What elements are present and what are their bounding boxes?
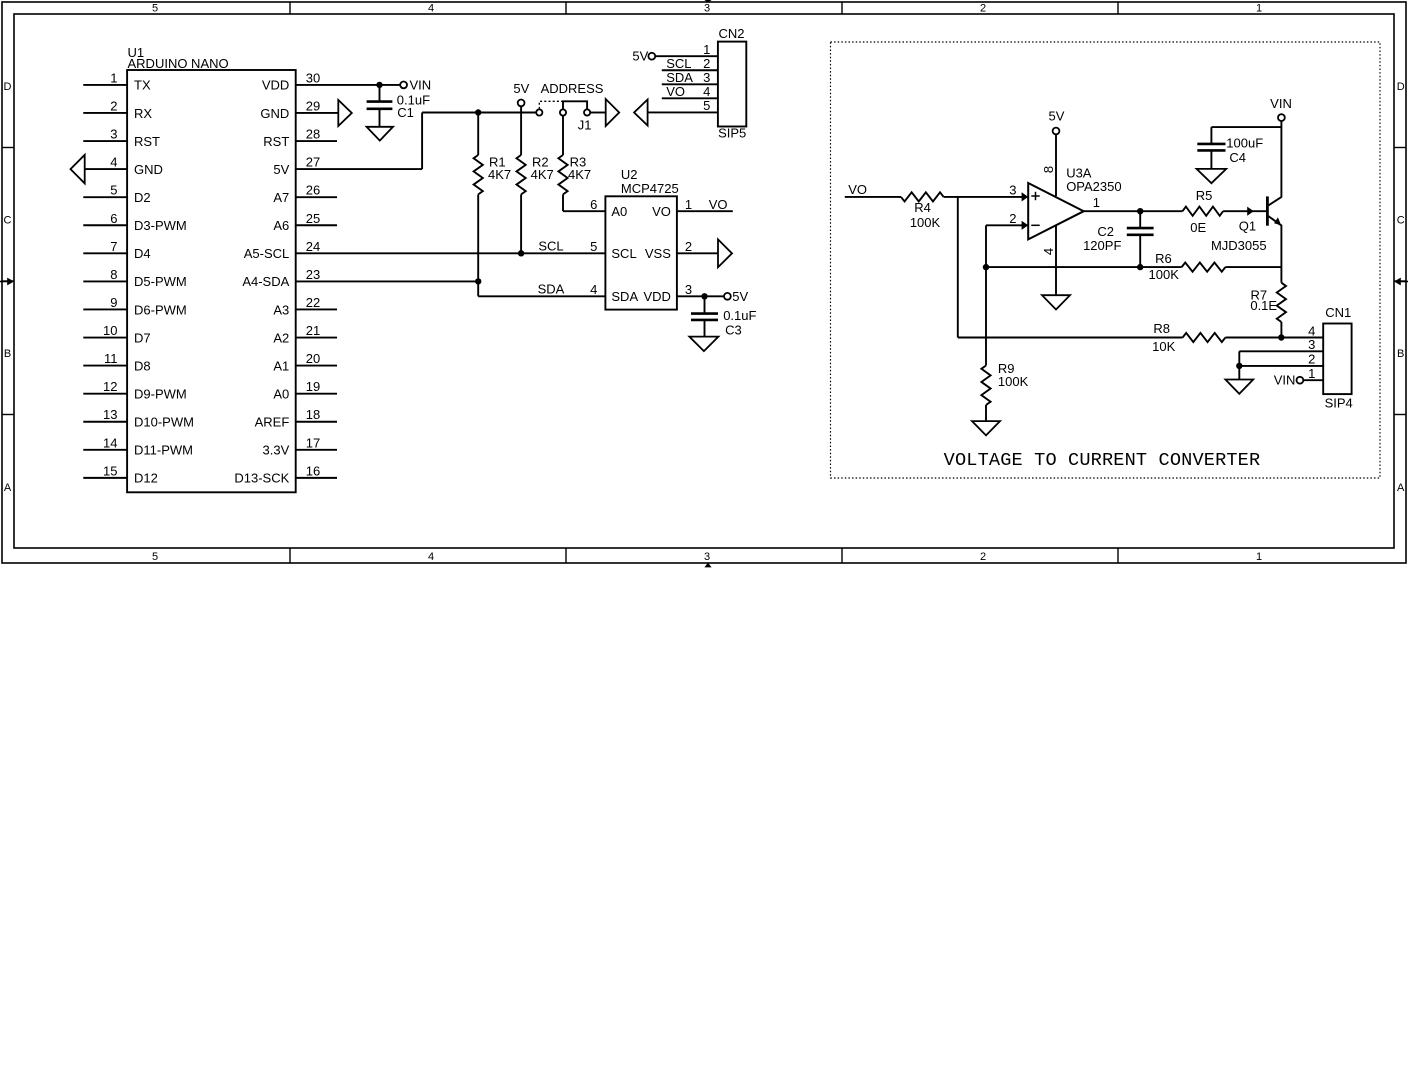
svg-text:D10-PWM: D10-PWM [134,415,194,430]
capacitor C1 0.1uF [367,85,431,127]
resistor R7 0.1E [1250,283,1286,322]
wire J1 pad3 to port arrow [590,112,606,114]
svg-text:30: 30 [306,70,320,85]
svg-text:100K: 100K [910,215,941,230]
U1 pin 16 D13-SCK [234,463,337,485]
svg-text:12: 12 [103,379,117,394]
terminal 5V (above R2) [513,81,529,106]
svg-text:VO: VO [709,197,728,212]
port arrow ADDRESS out [606,99,620,126]
U1 pin 2 RX [83,98,152,120]
jumper J1 pad 1 [536,109,542,115]
op-amp U3A OPA2350 [1028,166,1121,240]
svg-text:R8: R8 [1153,321,1170,336]
ground below U3A pin 4 [1042,295,1070,309]
ground below C3 [689,337,718,352]
svg-text:7: 7 [110,239,117,254]
connector CN1 SIP4 body [1323,305,1353,410]
junction SCL / R2 [518,250,524,256]
svg-text:3: 3 [110,127,117,142]
svg-text:5: 5 [590,239,597,254]
J1 solid bracket pads 2-3 [563,101,587,109]
U3A pin 1 output wire [1084,195,1183,211]
U2 pin 6 A0 [590,197,627,219]
svg-text:ARDUINO NANO: ARDUINO NANO [128,56,229,71]
sheet frame outer border [2,2,1406,563]
U1 pin 12 D9-PWM [83,379,186,401]
capacitor C4 100uF [1197,127,1263,169]
svg-text:VO: VO [848,182,867,197]
junction output / C2 [1137,208,1143,214]
svg-text:1: 1 [1308,366,1315,381]
svg-text:19: 19 [306,379,320,394]
svg-text:C1: C1 [397,105,414,120]
frame centering arrow left [0,278,14,286]
svg-text:13: 13 [103,407,117,422]
CN1 pin 3 [1239,337,1323,366]
U2 pin 2 VSS [645,239,718,261]
svg-text:10K: 10K [1152,339,1175,354]
port arrow VSS (U2 pin2) [718,239,732,267]
svg-text:10: 10 [103,323,117,338]
svg-text:1: 1 [703,42,710,57]
U3A pin 3 input arrow [1009,182,1028,201]
svg-text:MCP4725: MCP4725 [621,181,679,196]
svg-text:D4: D4 [134,246,151,261]
svg-text:C: C [4,214,12,226]
frame row ticks right [1394,148,1406,415]
svg-text:4: 4 [1308,323,1315,338]
svg-text:100uF: 100uF [1226,136,1263,151]
U1 pin 10 D7 [83,323,150,345]
svg-text:A: A [1397,482,1405,494]
resistor R2 4K7 [517,106,554,253]
svg-text:2: 2 [110,98,117,113]
svg-text:D13-SCK: D13-SCK [234,471,289,486]
svg-text:100K: 100K [1149,267,1180,282]
jumper J1 pad 3 [584,109,590,115]
U2 pin 5 SCL [590,239,637,261]
svg-text:2: 2 [1009,211,1016,226]
frame column ticks bottom [290,548,1118,563]
U3A pin 2 input arrow [1009,211,1028,230]
wire SDA net U1 pin23 to U2 pin4 [296,281,606,296]
resistor R9 100K [981,267,1028,421]
U1 pin 6 D3-PWM [83,211,186,233]
svg-text:C3: C3 [725,323,742,338]
terminal VIN (top right) [1270,96,1292,121]
wire feedback line to R6 [986,266,1182,268]
svg-text:28: 28 [306,127,320,142]
jumper J1 pad 2 [560,109,566,115]
U1 pin 4 GND [85,155,163,177]
svg-text:SDA: SDA [666,70,693,85]
wire VIN branch to C4 [1211,126,1281,128]
ground below C1 [367,127,393,141]
svg-text:SDA: SDA [611,289,638,304]
svg-text:A7: A7 [273,190,289,205]
svg-text:VOLTAGE TO CURRENT CONVERTER: VOLTAGE TO CURRENT CONVERTER [944,450,1261,471]
svg-text:VO: VO [652,204,671,219]
resistor R6 100K [1149,251,1226,282]
svg-text:D9-PWM: D9-PWM [134,386,187,401]
svg-text:4: 4 [428,551,434,563]
svg-text:22: 22 [306,295,320,310]
wire R7 to junction [1280,322,1282,338]
U1 pin 11 D8 [83,351,150,373]
U1 pin 21 A2 [273,323,337,345]
U1 pin 13 D10-PWM [83,407,194,429]
dotted box VOLTAGE TO CURRENT CONVERTER [831,42,1381,478]
svg-text:23: 23 [306,267,320,282]
IC U1 ARDUINO NANO body [127,45,296,493]
svg-text:A2: A2 [273,330,289,345]
svg-text:D: D [4,81,12,93]
svg-text:4: 4 [1041,248,1056,255]
U1 pin 7 D4 [83,239,150,261]
svg-text:16: 16 [306,463,320,478]
svg-text:2: 2 [980,3,986,15]
svg-text:26: 26 [306,183,320,198]
svg-text:2: 2 [685,239,692,254]
capacitor C2 120PF [1083,211,1154,267]
wire R3 to U2 pin6 [563,210,605,212]
terminal 5V (U2 VDD) [724,289,749,304]
CN2 pin 4 VO [662,84,718,99]
U1 pin 24 A5-SCL [244,239,321,261]
junction 5V rail / R1 [475,109,481,115]
svg-text:D12: D12 [134,471,158,486]
svg-text:0.1E: 0.1E [1250,298,1277,313]
sheet frame inner border [14,14,1394,548]
resistor R8 10K [1152,321,1225,354]
svg-text:5V: 5V [1049,109,1065,124]
svg-text:4K7: 4K7 [488,167,511,182]
svg-text:SCL: SCL [538,239,563,254]
svg-text:0.1uF: 0.1uF [723,308,756,323]
svg-text:GND: GND [260,106,289,121]
junction feedback / C2 [1137,264,1143,270]
wire R6 to emitter vertical [1225,266,1281,268]
svg-text:2: 2 [1308,352,1315,367]
svg-text:OPA2350: OPA2350 [1066,179,1121,194]
frame column labels bottom [152,551,1262,563]
U1 pin 8 D5-PWM [83,267,186,289]
transistor Q1 MJD3055 [1211,196,1282,253]
frame centering arrow right [1394,278,1408,286]
svg-text:1: 1 [1256,3,1262,15]
wire to ground CN1 [1238,366,1240,380]
CN2 pin 2 SCL [662,56,718,71]
U3A pin 4 supply [1041,225,1056,295]
Q1 base input arrow [1247,207,1254,216]
U1 pin 22 A3 [273,295,337,317]
CN1 pin 2 [1239,352,1323,367]
U1 pin 1 TX [83,70,151,92]
U1 pin 28 RST [263,127,337,149]
svg-text:U2: U2 [621,167,638,182]
svg-text:CN2: CN2 [718,26,744,41]
svg-text:CN1: CN1 [1325,305,1351,320]
resistor R1 4K7 [474,113,512,282]
svg-text:3.3V: 3.3V [263,443,290,458]
IC U2 MCP4725 body [605,167,678,310]
net stub VO input [845,182,901,197]
svg-text:15: 15 [103,463,117,478]
terminal 5V (CN2 pin1) [632,48,655,63]
svg-text:D3-PWM: D3-PWM [134,218,187,233]
svg-text:24: 24 [306,239,320,254]
U2 pin 1 VO [652,197,733,219]
U1 pin 26 A7 [273,183,337,205]
svg-text:A3: A3 [273,302,289,317]
U1 pin 20 A1 [273,351,337,373]
U1 pin 14 D11-PWM [83,435,193,457]
U1 pin 15 D12 [83,463,158,485]
capacitor C3 0.1uF [691,296,757,337]
svg-text:5: 5 [152,3,158,15]
svg-text:5: 5 [152,551,158,563]
svg-text:A: A [4,482,12,494]
svg-text:VO: VO [666,84,685,99]
svg-text:25: 25 [306,211,320,226]
port arrow GND (U1 pin 4) [71,155,85,184]
svg-text:VDD: VDD [262,78,289,93]
wire SCL net U1 pin24 to U2 pin5 [296,239,606,254]
svg-text:A4-SDA: A4-SDA [242,274,289,289]
resistor R3 4K7 [558,116,591,212]
wire R4 to op-amp + input [944,196,1029,198]
svg-text:C2: C2 [1097,224,1114,239]
svg-text:TX: TX [134,78,151,93]
svg-text:17: 17 [306,435,320,450]
svg-text:11: 11 [104,351,118,366]
svg-text:3: 3 [704,3,710,15]
U1 pin 27 5V [273,155,320,177]
svg-text:D8: D8 [134,358,151,373]
junction feedback node [983,264,989,270]
svg-text:VDD: VDD [643,289,670,304]
wire R5 to Q1 base [1223,210,1266,212]
svg-text:4: 4 [590,282,597,297]
svg-text:2: 2 [980,551,986,563]
svg-text:VIN: VIN [1274,372,1296,387]
wire U1 pin27 5V rail [296,113,537,170]
svg-text:SCL: SCL [666,56,691,71]
CN2 pin 3 SDA [662,70,718,85]
svg-text:21: 21 [306,323,320,338]
svg-text:VIN: VIN [1270,96,1292,111]
svg-text:5V: 5V [513,81,529,96]
frame row labels left [4,81,12,494]
terminal 5V (U3A pin 8) [1049,109,1065,135]
frame column labels top [152,3,1262,15]
wire - input [986,225,1028,267]
svg-text:SCL: SCL [611,246,636,261]
svg-text:9: 9 [110,295,117,310]
svg-text:GND: GND [134,162,163,177]
svg-text:100K: 100K [998,374,1029,389]
svg-text:3: 3 [704,551,710,563]
svg-text:29: 29 [306,98,320,113]
resistor R5 0E [1183,188,1224,235]
svg-text:D2: D2 [134,190,151,205]
svg-text:R4: R4 [914,200,931,215]
U1 pin 19 A0 [273,379,337,401]
svg-text:RST: RST [263,134,289,149]
svg-text:SIP5: SIP5 [718,126,746,141]
junction CN1 gnd [1236,363,1242,369]
U1 pin 3 RST [83,127,160,149]
ground below CN1 pins 2/3 [1225,380,1253,394]
U1 pin 17 3.3V [263,435,337,457]
frame column ticks top [290,2,1118,14]
junction SDA / R1 [475,278,481,284]
svg-text:A1: A1 [273,358,289,373]
wire Q1 emitter to R7 [1280,226,1282,283]
U3A pin 8 supply [1041,135,1056,197]
CN1 pin 1 VIN [1303,366,1323,381]
svg-text:A0: A0 [273,386,289,401]
svg-text:R5: R5 [1196,188,1213,203]
svg-text:MJD3055: MJD3055 [1211,238,1267,253]
U1 pin 18 AREF [255,407,337,429]
svg-text:RST: RST [134,134,160,149]
svg-text:AREF: AREF [255,415,290,430]
CN2 pin 1 (5V) [655,42,718,57]
svg-text:5: 5 [110,183,117,198]
svg-text:3: 3 [1308,337,1315,352]
ground below C4 [1197,169,1227,183]
svg-text:6: 6 [110,211,117,226]
svg-text:VSS: VSS [645,246,671,261]
svg-text:VIN: VIN [410,77,432,92]
svg-text:6: 6 [590,197,597,212]
svg-text:4K7: 4K7 [531,167,554,182]
svg-text:1: 1 [1093,195,1100,210]
svg-text:20: 20 [306,351,320,366]
U1 pin 29 GND [260,98,338,120]
svg-text:SIP4: SIP4 [1325,396,1353,411]
junction emitter/R8/CN1 [1278,334,1284,340]
frame centering arrow top [704,0,711,3]
svg-text:5: 5 [703,98,710,113]
wire Q1 collector to VIN [1280,121,1282,197]
U2 pin 4 SDA [590,282,638,304]
svg-text:4: 4 [428,3,434,15]
U2 pin 3 VDD [643,282,724,304]
svg-text:120PF: 120PF [1083,238,1121,253]
svg-text:3: 3 [685,282,692,297]
svg-text:4: 4 [703,84,710,99]
junction at VDD/C1 [376,82,382,88]
svg-text:0E: 0E [1190,220,1206,235]
svg-text:RX: RX [134,106,152,121]
svg-text:B: B [1397,348,1404,360]
svg-text:4: 4 [110,155,117,170]
svg-text:SDA: SDA [538,281,565,296]
wire + node riser to R8 [958,197,1183,338]
svg-text:D5-PWM: D5-PWM [134,274,187,289]
resistor R4 100K [901,192,944,230]
svg-text:27: 27 [306,155,320,170]
terminal VIN (CN1 pin1) [1274,372,1304,387]
svg-text:B: B [4,348,11,360]
U1 pin 30 VDD [262,70,320,92]
svg-text:ADDRESS: ADDRESS [541,81,604,96]
svg-text:5V: 5V [732,289,748,304]
svg-text:A0: A0 [611,204,627,219]
junction VDD / C3 [701,293,707,299]
svg-text:D6-PWM: D6-PWM [134,302,187,317]
svg-text:1: 1 [110,70,117,85]
svg-text:R6: R6 [1155,251,1172,266]
ground below R9 [972,421,1000,435]
wire R8 to emitter junction [1225,337,1281,339]
svg-text:C: C [1397,214,1405,226]
svg-text:1: 1 [1256,551,1262,563]
frame row ticks left [2,148,14,415]
svg-text:3: 3 [703,70,710,85]
svg-text:5V: 5V [273,162,289,177]
frame row labels right [1397,81,1405,494]
U1 pin 25 A6 [273,211,337,233]
terminal VIN (top left) [400,77,431,92]
frame centering arrow bottom [704,563,711,568]
svg-text:5V: 5V [632,48,648,63]
svg-text:D7: D7 [134,330,151,345]
svg-text:3: 3 [1009,182,1016,197]
svg-text:Q1: Q1 [1239,219,1256,234]
svg-text:18: 18 [306,407,320,422]
svg-text:8: 8 [1041,166,1056,173]
svg-text:D: D [1397,81,1405,93]
wire U1 pin30 VDD to VIN terminal [296,84,401,86]
svg-text:J1: J1 [578,117,592,132]
CN1 pin 4 [1281,323,1323,338]
U1 pin 23 A4-SDA [242,267,320,289]
svg-text:D11-PWM: D11-PWM [134,443,193,458]
J1 dotted alternate bracket [539,101,563,109]
port arrow GND (U1 pin 29) [338,100,352,126]
U1 pin 5 D2 [83,183,150,205]
svg-text:14: 14 [103,435,117,450]
CN2 pin 5 (ADDRESS) [648,98,718,113]
svg-text:A6: A6 [273,218,289,233]
U1 pin 9 D6-PWM [83,295,186,317]
port arrow ADDRESS in (to CN2) [634,100,648,126]
svg-text:8: 8 [110,267,117,282]
svg-text:A5-SCL: A5-SCL [244,246,290,261]
svg-text:2: 2 [703,56,710,71]
svg-text:1: 1 [685,197,692,212]
svg-text:C4: C4 [1229,150,1246,165]
svg-text:4K7: 4K7 [568,167,591,182]
connector CN2 SIP5 body [718,26,746,140]
